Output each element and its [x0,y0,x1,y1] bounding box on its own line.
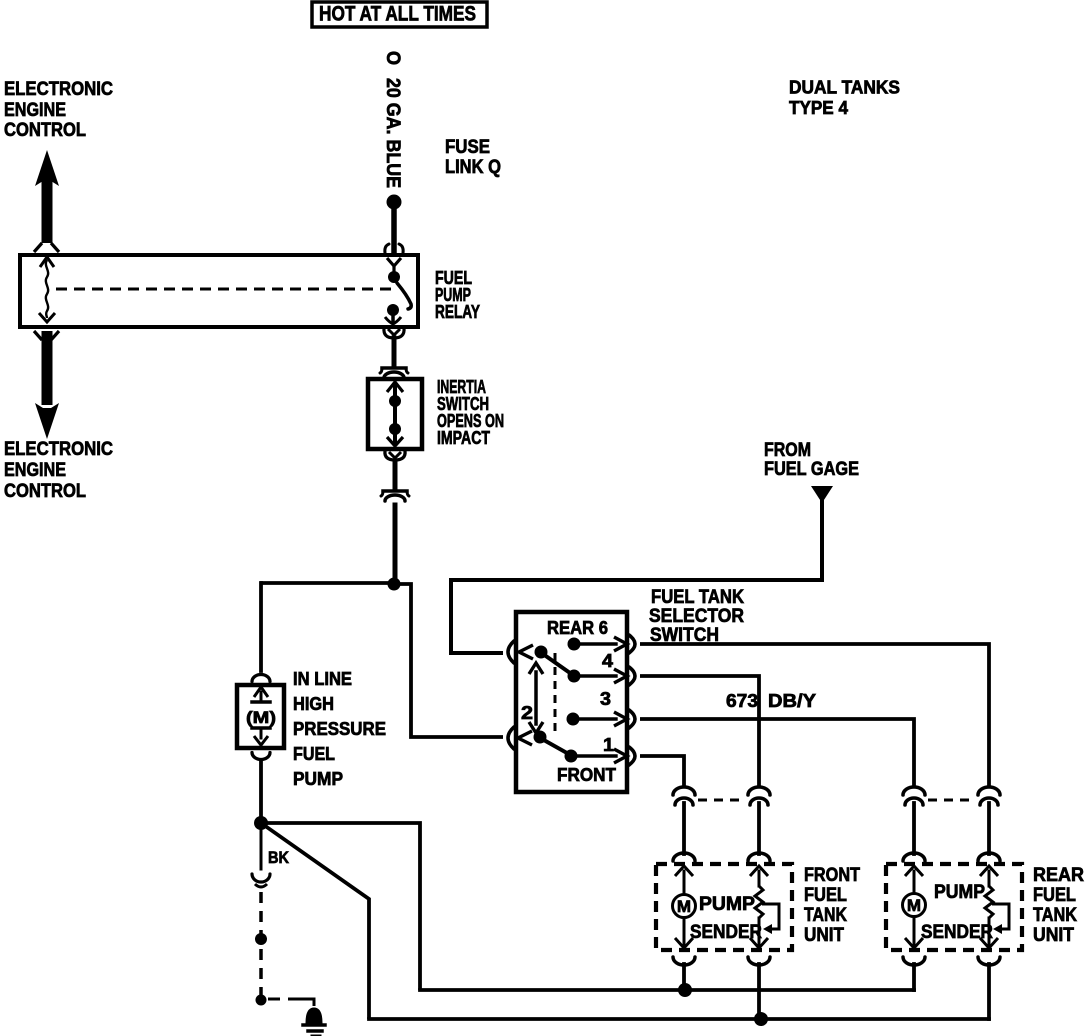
front sender outlet connector [748,957,770,965]
rear sender wiper [992,904,1009,934]
label BK [268,848,290,867]
svg-text:TANK: TANK [804,905,847,926]
rear sender inlet connector [978,853,1000,861]
label electronic engine control (bottom) [4,439,113,502]
relay internal dashed link [56,288,396,291]
wire inertia to connector pair [393,461,398,487]
label sender (rear) [921,922,993,943]
label in line high pressure fuel pump [293,669,386,789]
svg-text:RELAY: RELAY [435,302,480,322]
svg-text:FUEL TANK: FUEL TANK [651,587,744,608]
relay switch contact (top) [387,258,401,283]
connector below relay [384,328,404,338]
svg-text:20 GA. BLUE: 20 GA. BLUE [382,78,403,188]
rear sender outlet [980,918,998,948]
connector below inertia switch [385,451,405,460]
connector on BK wire [252,874,270,887]
rear pump motor [903,894,926,917]
wire to in-line pump [259,583,263,671]
front pump outlet [675,918,693,948]
svg-text:FUSE: FUSE [445,137,490,158]
wire pump ground bus [420,988,914,992]
svg-text:UNIT: UNIT [1033,925,1074,946]
rear pump outlet [905,917,923,948]
svg-text:O: O [382,51,403,65]
svg-text:BK: BK [268,848,290,867]
svg-text:PUMP: PUMP [293,769,343,789]
rear pump inlet arrow [905,866,923,893]
selector blade front [534,731,570,759]
wire junction to selector front input [394,584,503,737]
wire pump to ground junction [259,761,263,821]
relay switch contact (bottom) [385,304,401,324]
connector above in-line pump [252,675,270,682]
svg-text:(M): (M) [246,708,276,727]
wire rear sender to sender bus [987,964,991,1019]
selector output connector 3 [629,710,635,728]
svg-text:LINK Q: LINK Q [445,157,501,178]
label fuse link Q [445,137,501,178]
svg-text:ENGINE: ENGINE [4,460,66,481]
svg-text:FROM: FROM [764,440,811,461]
fuel tank selector switch box [516,612,627,792]
svg-text:UNIT: UNIT [804,925,844,946]
svg-text:REAR 6: REAR 6 [547,618,608,638]
front pump inlet arrow [675,866,693,894]
inline connector pair front pump wire [673,787,695,805]
wire front pump to ground bus [682,964,686,988]
wire sender bus [369,1017,989,1021]
node hot feed dot [387,195,402,210]
inline connector pair front sender wire [748,787,770,805]
svg-text:4: 4 [602,651,613,671]
dashed connector link front [698,799,745,802]
wire BK dashed [259,892,263,996]
wire relay to connector [392,338,397,364]
node front sender splice [754,1012,768,1026]
label front fuel tank unit [804,865,860,946]
wire junction to fuel pump branch [262,581,394,585]
wire terminal 1 to front pump [640,756,684,787]
svg-text:SELECTOR: SELECTOR [649,606,744,627]
wire fuse link to relay [391,203,397,253]
in-line pump motor [246,687,276,745]
wire ground junction diagonal to sender bus [261,823,369,1019]
svg-text:2: 2 [521,703,533,723]
inline connector pair rear pump wire [903,787,925,805]
front pump inlet connector [673,853,695,861]
label 673 DB/Y [726,691,816,711]
selector terminal 3 [567,712,628,726]
node BK splice 2 [256,995,267,1006]
selector rear input arrow [519,645,533,659]
front sender inlet connector [748,853,770,861]
connector at relay pin (battery feed) [385,244,403,253]
svg-text:PUMP: PUMP [934,882,985,903]
front tank unit box [656,864,792,950]
wire front pump drop [682,803,686,854]
inertia switch box [368,379,422,449]
svg-text:IMPACT: IMPACT [437,428,490,448]
selector rear input connector [508,641,514,663]
wire rear pump drop [912,803,916,854]
svg-text:673: 673 [726,691,758,711]
inline connector pair rear sender wire [978,787,1000,805]
svg-text:FRONT: FRONT [804,865,860,886]
svg-text:FRONT: FRONT [557,765,616,785]
hot at all times label box [312,2,487,27]
svg-text:M: M [677,897,691,916]
svg-text:FUEL: FUEL [293,744,335,764]
inline connector pair 2 [381,491,409,501]
svg-text:CONTROL: CONTROL [4,120,86,141]
rear pump inlet connector [903,853,925,861]
front sender wiper [762,904,779,934]
connector below in-line pump [252,753,270,760]
front pump motor [673,895,696,918]
wire terminal 3 to rear pump [640,719,914,787]
label 2 [521,703,533,723]
label front [557,765,616,785]
selector terminal 4 [568,669,628,683]
label 4 [602,651,613,671]
wire BK down [260,828,263,869]
svg-text:CONTROL: CONTROL [4,481,86,502]
selector throw indicator [529,663,543,733]
selector blade rear [535,646,573,679]
svg-text:3: 3 [600,689,611,709]
svg-text:FUEL GAGE: FUEL GAGE [764,459,859,480]
svg-text:REAR: REAR [1033,865,1084,886]
svg-text:FUEL: FUEL [1033,885,1076,906]
svg-text:DUAL TANKS: DUAL TANKS [789,78,900,98]
arrow to electronic engine control (down) [34,331,59,439]
wire terminal 4 to front sender [640,676,759,787]
svg-text:FUEL: FUEL [804,885,847,906]
svg-text:TANK: TANK [1033,905,1077,926]
label dual tanks type 4 [789,78,900,119]
rear sender inlet arrow [980,866,998,886]
front pump outlet connector [673,957,695,965]
front sender outlet [750,918,768,948]
svg-text:ELECTRONIC: ELECTRONIC [4,439,113,460]
in-line fuel pump box [237,685,284,748]
front sender resistor [755,886,763,918]
selector terminal 1 [565,749,628,763]
wire rear pump to ground bus [912,964,916,990]
label from fuel gage [764,440,859,480]
relay switch blade [397,283,411,309]
wire front sender to sender bus [757,964,761,1017]
node front pump ground splice [678,983,692,997]
wire to chassis ground [268,999,314,1006]
selector output connector 4 [629,667,635,685]
selector dashed link [554,653,557,737]
svg-text:ELECTRONIC: ELECTRONIC [4,79,113,100]
svg-text:IN LINE: IN LINE [293,669,352,689]
wire fuel gage to selector rear input [451,500,822,653]
node BK splice 1 [255,933,267,945]
relay coil element [39,257,55,322]
svg-text:HIGH: HIGH [293,694,334,714]
selector output connector 1 [629,747,635,765]
label fuel tank selector switch [649,587,744,646]
inline connector pair [380,368,408,378]
selector output connector 6 [629,635,635,653]
svg-text:HOT AT ALL TIMES: HOT AT ALL TIMES [319,3,476,26]
label pump (rear) [934,882,985,903]
selector terminal 6 [568,637,628,651]
svg-text:TYPE 4: TYPE 4 [789,98,848,118]
label 1 [603,735,614,755]
fuel pump relay box [20,255,418,327]
label rear 6 [547,618,608,638]
rear pump outlet connector [903,957,925,965]
rear tank unit box [886,864,1022,950]
node ground junction [254,816,268,830]
svg-text:M: M [907,896,921,915]
arrow from fuel gage [811,486,833,503]
arrow to electronic engine control (up) [34,150,59,252]
selector front input connector [508,727,514,749]
label rear fuel tank unit [1033,865,1084,946]
svg-text:1: 1 [603,735,614,755]
svg-text:PUMP: PUMP [699,894,755,915]
wire front sender drop [757,803,761,854]
front sender inlet arrow [750,866,768,886]
svg-text:PRESSURE: PRESSURE [293,719,386,739]
label inertia switch [437,377,504,448]
inertia switch contacts [387,382,403,446]
dashed connector link rear [928,799,975,802]
chassis ground [303,1008,325,1036]
label sender (front) [690,922,762,943]
label fuel pump relay [435,268,480,322]
wire ground junction to pump ground bus [261,823,420,990]
label 3 [600,689,611,709]
rear sender outlet connector [978,957,1000,965]
wire rear sender drop [987,803,991,854]
rear sender resistor [985,886,993,918]
wire to main junction [393,505,398,582]
wire label O 20 GA. BLUE (rotated) [382,51,403,188]
wire terminal 6 to rear sender [640,644,989,787]
svg-text:ENGINE: ENGINE [4,100,66,121]
node main junction [388,578,401,591]
label pump (front) [699,894,755,915]
label electronic engine control (top) [4,79,113,141]
svg-text:DB/Y: DB/Y [768,691,816,711]
selector front input arrow [518,731,532,745]
